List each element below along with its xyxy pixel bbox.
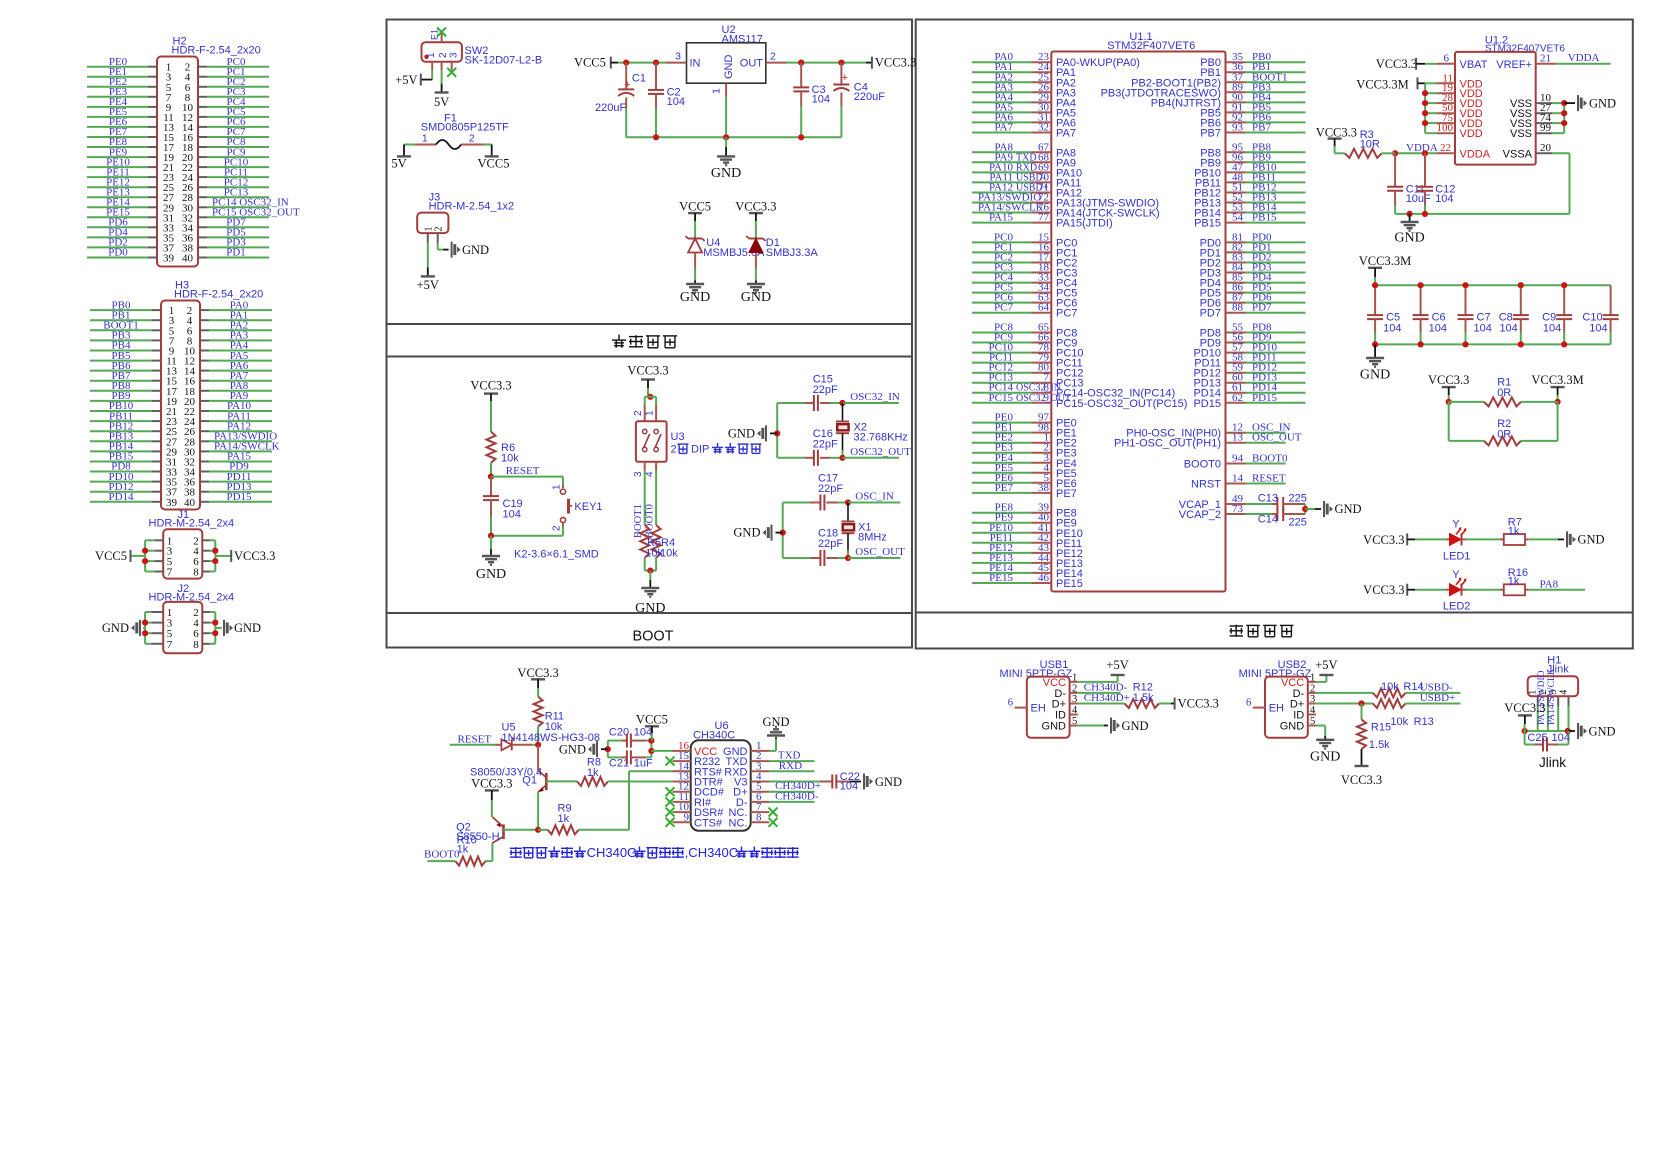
svg-text:73: 73 bbox=[1232, 503, 1244, 515]
svg-text:VCC5: VCC5 bbox=[679, 200, 711, 214]
J1 pin 4 bbox=[202, 550, 209, 552]
svg-text:PC15: PC15 bbox=[989, 392, 1014, 404]
J2 pin 2 bbox=[202, 611, 209, 613]
wire LED1 to GND bbox=[1529, 538, 1558, 540]
svg-text:HDR-M-2.54_1x2: HDR-M-2.54_1x2 bbox=[429, 201, 515, 213]
U1.1 pin 43 PE12 bbox=[972, 552, 1032, 554]
U1.2 pin 75 VDD bbox=[1425, 122, 1437, 124]
node OSC_IN bbox=[845, 499, 851, 505]
wire Q2 collector to R10 bbox=[491, 843, 493, 861]
U1.1 pin 5 PE6 bbox=[972, 482, 1032, 484]
svg-text:GND: GND bbox=[711, 166, 741, 181]
resistor R1 0R bbox=[1449, 401, 1484, 403]
resistor R15 1.5k bbox=[1361, 704, 1363, 720]
H2 pin 24 PC11 wire bbox=[198, 176, 207, 178]
H3 pin 16 PA7 wire bbox=[200, 380, 209, 382]
U1.1 pin 98 PE1 bbox=[972, 432, 1032, 434]
svg-text:+: + bbox=[842, 72, 848, 84]
svg-text:14: 14 bbox=[1232, 473, 1244, 485]
H2 pin 13 PE6 wire bbox=[87, 126, 148, 128]
analog ground rail bbox=[1395, 213, 1569, 215]
power bar VCC5 at F1 pin2 bbox=[491, 145, 493, 157]
svg-text:PA14/SWCLK: PA14/SWCLK bbox=[1547, 668, 1557, 725]
U1.1 pin 44 PE13 bbox=[972, 562, 1032, 564]
U1.1 pin 59 PD12 bbox=[1226, 372, 1246, 374]
power flag VCC3.3 bbox=[230, 550, 232, 562]
U1.1 pin 39 PE8 bbox=[972, 512, 1032, 514]
H2 pin 6 PC2 wire bbox=[198, 86, 207, 88]
capacitor C8 104 bbox=[1520, 285, 1522, 315]
H2 pin 40 PD1 wire bbox=[198, 257, 207, 259]
svg-text:9: 9 bbox=[684, 811, 690, 823]
U1.1 pin 2 PE3 bbox=[972, 452, 1032, 454]
cap bank top rail bbox=[1375, 284, 1611, 286]
svg-text:5: 5 bbox=[1310, 716, 1315, 727]
wire R6 to RESET node bbox=[490, 463, 492, 477]
svg-text:VDDA: VDDA bbox=[1568, 52, 1600, 64]
U1.2 pin 20 VSSA bbox=[1536, 152, 1552, 154]
J2 pin 8 bbox=[202, 643, 209, 645]
svg-text:104: 104 bbox=[1543, 323, 1561, 335]
svg-text:7: 7 bbox=[167, 567, 173, 579]
H2 pin 27 PE13 wire bbox=[87, 196, 148, 198]
H2 pin 15 PE7 wire bbox=[87, 136, 148, 138]
wire R9 to U6 pin14 bbox=[628, 771, 630, 830]
J1 left bus wire to VCC5 bbox=[144, 540, 146, 571]
H3 pin 38 PD13 wire bbox=[200, 491, 209, 493]
H3 pin 30 PA14/SWCLK wire bbox=[200, 450, 209, 452]
H1 bottom bus bbox=[1525, 730, 1569, 732]
svg-text:PD14: PD14 bbox=[108, 491, 134, 503]
svg-text:OSC32_OUT: OSC32_OUT bbox=[850, 446, 911, 458]
ground below C19 bbox=[490, 536, 492, 549]
capacitor C6 104 bbox=[1420, 285, 1422, 315]
svg-text:+5V: +5V bbox=[395, 73, 417, 87]
H2 pin 4 PC1 wire bbox=[198, 76, 207, 78]
svg-text:62: 62 bbox=[1232, 392, 1243, 404]
svg-text:GND: GND bbox=[1589, 724, 1616, 738]
U6 TXD wire bbox=[769, 760, 814, 762]
H3 pin 2 PA0 wire bbox=[200, 309, 209, 311]
USB2 D+ wire and R13 bbox=[1316, 703, 1373, 705]
U1.1 pin 55 PD8 bbox=[1226, 332, 1246, 334]
svg-text:PE15: PE15 bbox=[989, 572, 1013, 584]
U1.1 pin 15 PC0 bbox=[972, 241, 1032, 243]
H3 pin 8 PA3 wire bbox=[200, 339, 209, 341]
ground flag at C22 bbox=[863, 774, 865, 790]
H3 pin 7 PB3 wire bbox=[90, 339, 152, 341]
H3 pin 36 PD11 wire bbox=[200, 481, 209, 483]
svg-text:PC7: PC7 bbox=[1056, 308, 1077, 320]
U1.1 pin 25 PA2 bbox=[972, 81, 1032, 83]
U1.1 pin 58 PD11 bbox=[1226, 362, 1246, 364]
svg-text:VCC3.3: VCC3.3 bbox=[1376, 57, 1417, 71]
svg-text:R15: R15 bbox=[1371, 722, 1391, 734]
ground flag at LED1 bbox=[1566, 531, 1568, 547]
H1 pin2 wire PA13/SWDIO bbox=[1547, 706, 1549, 731]
H3 pin 33 PD8 wire bbox=[90, 471, 152, 473]
svg-text:32.768KHz: 32.768KHz bbox=[854, 432, 908, 444]
no-connect X on SW2 E1 bbox=[437, 27, 446, 36]
svg-text:PC15-OSC32_OUT(PC15): PC15-OSC32_OUT(PC15) bbox=[1056, 398, 1187, 410]
U1.1 pin 1 PE2 bbox=[972, 442, 1032, 444]
svg-text:104: 104 bbox=[1474, 323, 1492, 335]
H3 pin 40 PD15 wire bbox=[200, 501, 209, 503]
resistor R6 10k bbox=[487, 432, 496, 463]
svg-text:104: 104 bbox=[503, 509, 521, 521]
power flag VCC3.3 at R12 bbox=[1174, 698, 1176, 710]
svg-text:GND: GND bbox=[1360, 368, 1390, 383]
svg-text:100: 100 bbox=[1437, 122, 1454, 134]
U1.1 pin 24 PA1 bbox=[972, 71, 1032, 73]
svg-text:GND: GND bbox=[1122, 719, 1149, 733]
H1 pin4 wire to GND bbox=[1568, 706, 1570, 731]
U1.1 pin 95 PB8 bbox=[1226, 151, 1246, 153]
svg-text:PC15 OSC32_OUT: PC15 OSC32_OUT bbox=[212, 207, 300, 219]
U1.1 pin 37 BOOT1 bbox=[1226, 81, 1246, 83]
svg-text:10uF: 10uF bbox=[1406, 193, 1431, 205]
ground below D1 bbox=[755, 280, 757, 284]
U6 V3 wire to C22 bbox=[769, 781, 820, 783]
left wire of 32k crystal loop bbox=[776, 403, 778, 458]
SW2 pin2 wire to 5V bbox=[441, 62, 443, 71]
U6 pin 8 NC. bbox=[751, 821, 770, 823]
U3 pins 3,4 wires down bbox=[644, 462, 646, 470]
H2 pin 35 PD4 wire bbox=[87, 236, 148, 238]
svg-text:CTS#: CTS# bbox=[694, 817, 723, 829]
svg-text:1k: 1k bbox=[558, 813, 570, 825]
svg-text:94: 94 bbox=[1232, 453, 1244, 465]
U1.1 pin 96 PB9 bbox=[1226, 161, 1246, 163]
svg-text:NC.: NC. bbox=[729, 817, 748, 829]
J2 pin 4 bbox=[202, 622, 209, 624]
U1.1 pin 94 BOOT0 bbox=[1226, 463, 1246, 465]
H3 pin 27 PB13 wire bbox=[90, 440, 152, 442]
H2 pin 32 PC15 OSC32_OUT wire bbox=[198, 216, 207, 218]
svg-text:+5V: +5V bbox=[417, 278, 439, 292]
U1.2 pin 19 VDD bbox=[1425, 92, 1437, 94]
U6 pin 14 RTS# bbox=[673, 770, 691, 772]
U1.1 pin 73 VCAP_2 bbox=[1226, 513, 1246, 515]
USB1 VCC wire to +5V bbox=[1078, 681, 1118, 683]
H3 pin 23 PB11 wire bbox=[90, 420, 152, 422]
H3 pin 10 PA4 wire bbox=[200, 350, 209, 352]
svg-text:HDR-M-2.54_2x4: HDR-M-2.54_2x4 bbox=[149, 518, 235, 530]
wire Q1 emitter down bbox=[537, 792, 539, 830]
wires into U3 pins 1,2 bbox=[645, 396, 656, 398]
svg-text:HDR-F-2.54_2x20: HDR-F-2.54_2x20 bbox=[174, 289, 263, 301]
wire RESET node to KEY1 bbox=[491, 476, 563, 478]
section label 主控电路 bbox=[1230, 625, 1244, 627]
svg-text:GND: GND bbox=[1394, 231, 1424, 246]
svg-text:10k: 10k bbox=[501, 453, 519, 465]
U1.1 pin 76 PA14/SWCLK bbox=[972, 212, 1032, 214]
svg-text:1uF: 1uF bbox=[634, 758, 653, 770]
svg-text:8: 8 bbox=[756, 811, 762, 823]
ground flag at H1 bbox=[1569, 730, 1576, 732]
svg-text:88: 88 bbox=[1232, 302, 1244, 314]
H3 pin 11 PB5 wire bbox=[90, 360, 152, 362]
svg-text:U3: U3 bbox=[671, 431, 685, 443]
H3 pin 29 PB14 wire bbox=[90, 450, 152, 452]
svg-text:10k: 10k bbox=[660, 548, 678, 560]
U1.1 pin 30 PA5 bbox=[972, 111, 1032, 113]
power flag +5V bbox=[420, 74, 422, 86]
svg-text:2: 2 bbox=[552, 525, 563, 531]
USB1 pin 1 VCC bbox=[1070, 681, 1078, 683]
H3 pin 24 PA11 wire bbox=[200, 420, 209, 422]
svg-text:4: 4 bbox=[1310, 705, 1316, 716]
U1.1 pin 14 RESET bbox=[1226, 483, 1246, 485]
power bar +5V below J3 bbox=[421, 275, 435, 277]
svg-text:PD7: PD7 bbox=[1252, 302, 1272, 314]
H2 pin 22 PC10 wire bbox=[198, 166, 207, 168]
svg-text:VCC3.3: VCC3.3 bbox=[1341, 773, 1382, 787]
U1.1 pin 41 PE10 bbox=[972, 532, 1032, 534]
svg-text:225: 225 bbox=[1289, 517, 1307, 529]
svg-text:64: 64 bbox=[1038, 302, 1050, 314]
H2 pin 38 PD3 wire bbox=[198, 246, 207, 248]
svg-text:1: 1 bbox=[1310, 672, 1315, 683]
svg-text:PD15: PD15 bbox=[1193, 398, 1221, 410]
capacitor C25 104 bbox=[1524, 731, 1526, 745]
H3 pin 35 PD10 wire bbox=[90, 481, 152, 483]
svg-text:OSC_OUT: OSC_OUT bbox=[855, 546, 905, 558]
svg-text:6: 6 bbox=[1246, 698, 1251, 709]
wire Q1 base to R8 bbox=[546, 780, 577, 782]
U1.1 pin 77 PA15 bbox=[972, 222, 1032, 224]
section label 供电电路 bbox=[618, 335, 620, 341]
U1.1 pin 16 PC1 bbox=[972, 251, 1032, 253]
U1.2 pin 99 VSS bbox=[1536, 132, 1552, 134]
USB1 pin 4 ID bbox=[1070, 714, 1078, 716]
svg-text:6: 6 bbox=[1444, 52, 1450, 64]
svg-text:32: 32 bbox=[1038, 122, 1049, 134]
ground flag at 8M loop bbox=[776, 532, 783, 534]
U1.1 pin 65 PC8 bbox=[972, 332, 1032, 334]
H2 pin 1 PE0 wire bbox=[87, 66, 148, 68]
svg-text:HDR-F-2.54_2x20: HDR-F-2.54_2x20 bbox=[172, 45, 261, 57]
transistor Q1 S8050/J3Y/0.4 bbox=[545, 773, 548, 790]
U1.1 pin 29 PA4 bbox=[972, 101, 1032, 103]
svg-text:VCC3.3: VCC3.3 bbox=[1363, 533, 1404, 547]
resistor R9 1k bbox=[538, 829, 548, 831]
svg-text:VDDA: VDDA bbox=[1460, 148, 1491, 160]
U6 D+ wire CH340D+ bbox=[769, 791, 814, 793]
svg-text:VCC3.3: VCC3.3 bbox=[234, 549, 275, 563]
svg-text:104: 104 bbox=[1499, 323, 1517, 335]
cap bank bottom rail bbox=[1375, 343, 1611, 345]
U1.1 pin 8 PC14 bbox=[972, 392, 1032, 394]
svg-text:GND: GND bbox=[1310, 750, 1340, 765]
wire R8 to U6 pin13 bbox=[608, 780, 672, 782]
ground flag left of J2 bbox=[139, 620, 141, 636]
H3 pin 19 PB9 wire bbox=[90, 400, 152, 402]
U1.1 pin 23 PA0 bbox=[972, 61, 1032, 63]
svg-text:GND: GND bbox=[875, 775, 902, 789]
U6 pin 2 TXD bbox=[751, 760, 770, 762]
U6 pins 7,8 no-connect bbox=[769, 808, 778, 817]
U6 pin 7 NC. bbox=[751, 811, 770, 813]
U1.1 pin 31 PA6 bbox=[972, 121, 1032, 123]
resistor R14 10k bbox=[1373, 688, 1406, 697]
svg-text:GND: GND bbox=[680, 290, 710, 305]
U1.1 pin 9 PC15 bbox=[972, 402, 1032, 404]
svg-text:VSSA: VSSA bbox=[1503, 148, 1533, 160]
wire node to Q1 collector bbox=[537, 745, 539, 771]
U1.1 pin 69 PA10 bbox=[972, 171, 1032, 173]
U6 pin 11 RI# bbox=[673, 801, 691, 803]
svg-text:54: 54 bbox=[1232, 212, 1244, 224]
U1.1 pin 46 PE15 bbox=[972, 582, 1032, 584]
svg-text:PA7: PA7 bbox=[994, 122, 1013, 134]
H3 pin 5 BOOT1 wire bbox=[90, 329, 152, 331]
resistor R11 10k bbox=[534, 697, 543, 727]
H3 pin 3 PB1 wire bbox=[90, 319, 152, 321]
H2 pin 37 PD2 wire bbox=[87, 246, 148, 248]
U1.1 pin 38 PE7 bbox=[972, 492, 1032, 494]
resistor R10 1k bbox=[455, 857, 485, 866]
resistor R5 10k bbox=[640, 525, 649, 558]
svg-text:PB15: PB15 bbox=[1252, 212, 1277, 224]
H3 pin 22 PA10 wire bbox=[200, 410, 209, 412]
U1.1 pin 71 PA12 bbox=[972, 192, 1032, 194]
svg-text:104: 104 bbox=[1429, 323, 1447, 335]
svg-text:VCAP_2: VCAP_2 bbox=[1179, 509, 1221, 521]
svg-text:NRST: NRST bbox=[1191, 479, 1221, 491]
ground flag at USB1 bbox=[1110, 718, 1112, 734]
ground below cap bank bbox=[1374, 344, 1376, 358]
svg-text:VCC3.3: VCC3.3 bbox=[1178, 697, 1219, 711]
svg-text:8MHz: 8MHz bbox=[858, 532, 887, 544]
wire LED2 to PA8 bbox=[1529, 589, 1585, 591]
H2 pin 16 PC7 wire bbox=[198, 136, 207, 138]
node OSC32_OUT bbox=[839, 455, 845, 461]
svg-text:4: 4 bbox=[1072, 705, 1078, 716]
U1.1 pin 40 PE9 bbox=[972, 522, 1032, 524]
svg-text:BOOT0: BOOT0 bbox=[1252, 453, 1288, 465]
svg-text:PA8: PA8 bbox=[1540, 579, 1559, 591]
svg-text:3: 3 bbox=[1310, 694, 1315, 705]
svg-text:GND: GND bbox=[728, 427, 755, 441]
svg-text:22: 22 bbox=[1440, 142, 1451, 154]
svg-text:10k: 10k bbox=[1390, 716, 1408, 728]
SW2 pin1 wire to +5V bbox=[431, 62, 433, 71]
svg-text:VCC3.3: VCC3.3 bbox=[470, 379, 511, 393]
U1.1 pin 66 PC9 bbox=[972, 342, 1032, 344]
DIP switch U3 bbox=[636, 421, 667, 462]
H2 pin 9 PE4 wire bbox=[87, 106, 148, 108]
J2 pin 6 bbox=[202, 632, 209, 634]
svg-text:PH1-OSC_OUT(PH1): PH1-OSC_OUT(PH1) bbox=[1114, 438, 1221, 450]
svg-text:GND: GND bbox=[1578, 533, 1605, 547]
svg-text:KEY1: KEY1 bbox=[574, 501, 602, 513]
svg-text:VCC3.3: VCC3.3 bbox=[1428, 373, 1469, 387]
node at R11/U5/Q1 bbox=[535, 742, 541, 748]
H3 pin 25 PB12 wire bbox=[90, 430, 152, 432]
H2 pin 26 PC12 wire bbox=[198, 186, 207, 188]
U1.1 pin 35 PB0 bbox=[1226, 61, 1246, 63]
left wire of 8M crystal loop bbox=[782, 503, 784, 559]
U1.2 pin 27 VSS bbox=[1536, 112, 1552, 114]
USB1 pin 5 GND bbox=[1070, 725, 1078, 727]
section frame: power+boot column bbox=[387, 20, 913, 648]
svg-text:PD1: PD1 bbox=[226, 247, 246, 259]
USB1 pin 3 D+ bbox=[1070, 703, 1078, 705]
svg-text:104: 104 bbox=[1435, 193, 1453, 205]
svg-text:PB15: PB15 bbox=[1194, 218, 1221, 230]
svg-text:2: 2 bbox=[1072, 683, 1077, 694]
U6 D- wire CH340D- bbox=[769, 801, 814, 803]
H2 pin 30 PC14 OSC32_IN wire bbox=[198, 206, 207, 208]
svg-text:1: 1 bbox=[1072, 672, 1077, 683]
U1.1 pin 63 PC6 bbox=[972, 302, 1032, 304]
resistor R12 1.5k bbox=[1125, 699, 1160, 708]
U1.1 pin 61 PD14 bbox=[1226, 392, 1246, 394]
node OSC32_IN bbox=[839, 400, 845, 406]
ground flag at 32k loop bbox=[770, 432, 777, 434]
U1.1 pin 52 PB13 bbox=[1226, 202, 1246, 204]
ground below USB2 bbox=[1324, 736, 1326, 740]
capacitor C13 225 bbox=[1272, 503, 1277, 505]
svg-text:2: 2 bbox=[671, 444, 677, 456]
svg-text:7: 7 bbox=[167, 639, 173, 651]
U1.1 pin 49 VCAP_1 bbox=[1226, 503, 1246, 505]
svg-text:VCC3.3: VCC3.3 bbox=[627, 364, 668, 378]
svg-text:46: 46 bbox=[1038, 572, 1050, 584]
wire bottom of KEY1/C19 bbox=[491, 535, 563, 537]
svg-text:Y: Y bbox=[1452, 519, 1460, 531]
svg-text:22pF: 22pF bbox=[818, 483, 843, 495]
VSS bus to GND bbox=[1563, 103, 1565, 133]
svg-text:EH: EH bbox=[1269, 703, 1284, 715]
svg-text:104: 104 bbox=[840, 781, 858, 793]
U1.1 pin 70 PA11 bbox=[972, 181, 1032, 183]
svg-text:SMD0805P125TF: SMD0805P125TF bbox=[421, 122, 509, 134]
H2 pin 2 PC0 wire bbox=[198, 66, 207, 68]
H2 pin 21 PE10 wire bbox=[87, 166, 148, 168]
svg-text:IN: IN bbox=[690, 58, 701, 70]
svg-text:Q1: Q1 bbox=[522, 775, 537, 787]
U1.1 pin 51 PB12 bbox=[1226, 192, 1246, 194]
capacitor C2 104 bbox=[655, 63, 657, 90]
U1.2 pin 11 VDD bbox=[1425, 82, 1437, 84]
svg-text:VCC3.3: VCC3.3 bbox=[1504, 701, 1545, 715]
resistor R2 0R loop bbox=[1448, 402, 1450, 441]
svg-text:225: 225 bbox=[1289, 493, 1307, 505]
svg-text:VCC3.3: VCC3.3 bbox=[735, 200, 776, 214]
H2 pin 5 PE2 wire bbox=[87, 86, 148, 88]
SW2 pin E1 stub bbox=[441, 32, 443, 42]
U1.1 pin 34 PC5 bbox=[972, 292, 1032, 294]
USB1 pin 6 EH bbox=[1015, 707, 1027, 709]
svg-text:104: 104 bbox=[812, 94, 830, 106]
svg-text:93: 93 bbox=[1232, 122, 1244, 134]
svg-text:104: 104 bbox=[1552, 732, 1570, 744]
svg-text:CH340G: CH340G bbox=[587, 845, 638, 860]
U1.1 pin 56 PD9 bbox=[1226, 342, 1246, 344]
USB1 pin 2 D- bbox=[1070, 692, 1078, 694]
U1.1 pin 13 OSC_OUT bbox=[1226, 442, 1246, 444]
USB1 D- wire CH340D- bbox=[1078, 692, 1121, 694]
U1.1 pin 93 PB7 bbox=[1226, 132, 1246, 134]
svg-text:C14: C14 bbox=[1258, 514, 1278, 526]
U1.1 pin 97 PE0 bbox=[972, 422, 1032, 424]
U1.1 pin 47 PB10 bbox=[1226, 171, 1246, 173]
wire VCAP caps to ground bbox=[1304, 504, 1306, 514]
svg-text:3: 3 bbox=[675, 51, 681, 63]
U1.1 pin 87 PD6 bbox=[1226, 302, 1246, 304]
